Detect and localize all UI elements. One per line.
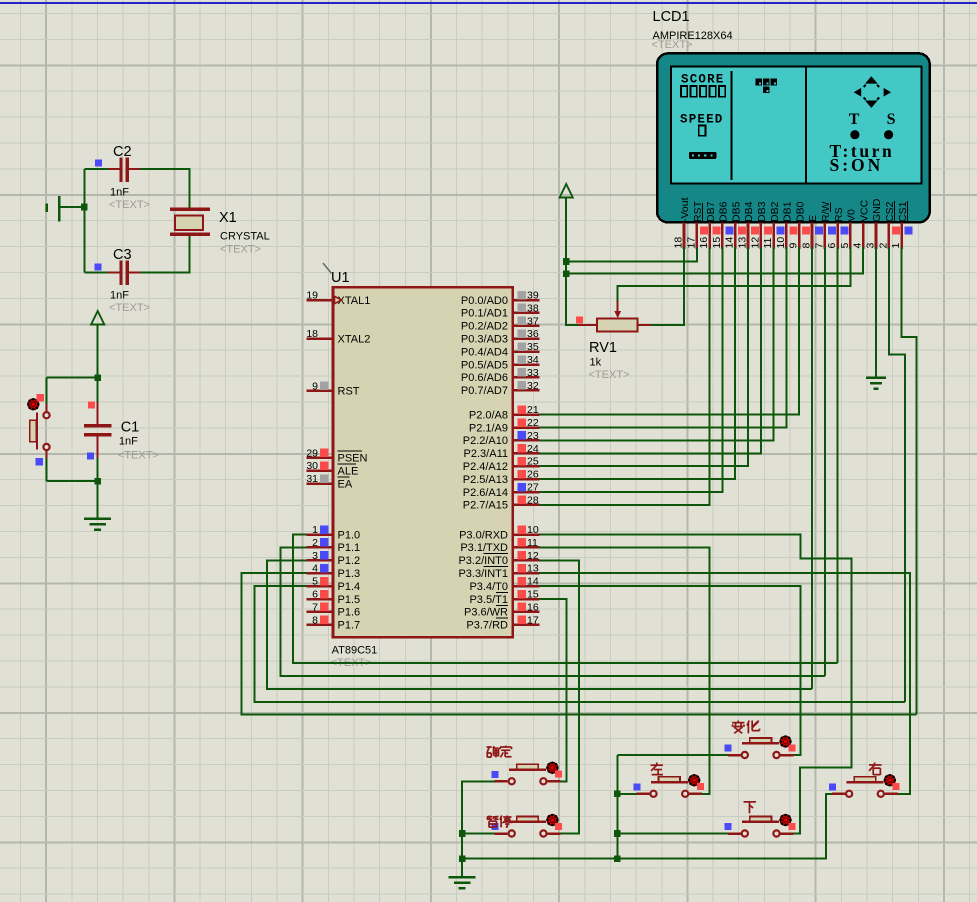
svg-text:EA: EA <box>338 478 353 490</box>
svg-text:P2.1/A9: P2.1/A9 <box>469 422 508 434</box>
svg-text:E: E <box>807 215 819 222</box>
svg-text:DB0: DB0 <box>794 201 806 222</box>
svg-text:29: 29 <box>306 447 318 459</box>
svg-text:15: 15 <box>527 589 539 601</box>
svg-text:P2.5/A13: P2.5/A13 <box>463 474 508 486</box>
svg-text:34: 34 <box>527 354 539 366</box>
svg-text:C3: C3 <box>113 247 132 263</box>
svg-text:P3.7/RD: P3.7/RD <box>466 620 508 632</box>
svg-text:P2.6/A14: P2.6/A14 <box>463 487 508 499</box>
svg-text:12: 12 <box>749 237 761 249</box>
svg-text:30: 30 <box>306 460 318 472</box>
svg-text:1nF: 1nF <box>119 436 138 448</box>
svg-text:1k: 1k <box>590 357 602 369</box>
svg-text:37: 37 <box>527 315 539 327</box>
svg-text:SPEED: SPEED <box>680 113 724 127</box>
svg-text:18: 18 <box>673 237 685 249</box>
svg-text:21: 21 <box>527 404 539 416</box>
svg-text:<TEXT>: <TEXT> <box>589 369 630 381</box>
svg-text:16: 16 <box>698 237 710 249</box>
svg-text:2: 2 <box>312 537 318 549</box>
svg-text:36: 36 <box>527 328 539 340</box>
svg-text:U1: U1 <box>331 270 350 286</box>
svg-text:1nF: 1nF <box>110 290 129 302</box>
svg-text:11: 11 <box>527 537 538 549</box>
svg-text:4: 4 <box>312 563 318 575</box>
svg-text:DB1: DB1 <box>782 201 794 222</box>
svg-text:P2.4/A12: P2.4/A12 <box>463 461 508 473</box>
svg-text:DB6: DB6 <box>718 201 730 222</box>
svg-text:8: 8 <box>312 614 318 626</box>
svg-text:SCORE: SCORE <box>681 73 725 87</box>
svg-text:<TEXT>: <TEXT> <box>109 199 150 211</box>
svg-text:PSEN: PSEN <box>338 453 368 465</box>
svg-text:14: 14 <box>527 576 539 588</box>
svg-text:LCD1: LCD1 <box>653 9 690 25</box>
svg-text:38: 38 <box>527 302 539 314</box>
svg-text:P1.7: P1.7 <box>338 620 361 632</box>
svg-text:-Vout: -Vout <box>679 197 691 222</box>
svg-text:17: 17 <box>685 237 697 249</box>
svg-text:P1.6: P1.6 <box>338 607 361 619</box>
svg-text:DB3: DB3 <box>756 201 768 222</box>
svg-text:VCC: VCC <box>858 199 870 222</box>
svg-text:15: 15 <box>711 237 723 249</box>
svg-text:<TEXT>: <TEXT> <box>220 244 261 256</box>
svg-text:ALE: ALE <box>338 466 359 478</box>
svg-text:P1.3: P1.3 <box>338 568 361 580</box>
svg-text:<TEXT>: <TEXT> <box>109 302 150 314</box>
svg-text:6: 6 <box>312 589 318 601</box>
svg-text:C2: C2 <box>113 144 132 160</box>
svg-text:S: S <box>887 111 896 128</box>
svg-text:V0: V0 <box>846 209 858 222</box>
svg-text:P0.4/AD4: P0.4/AD4 <box>461 346 508 358</box>
svg-text:1nF: 1nF <box>110 187 129 199</box>
svg-text:23: 23 <box>527 430 539 442</box>
svg-text:<TEXT>: <TEXT> <box>118 450 159 462</box>
svg-text:P3.4/T0: P3.4/T0 <box>469 581 508 593</box>
svg-text:35: 35 <box>527 341 539 353</box>
svg-text:P1.4: P1.4 <box>338 581 361 593</box>
svg-text:P0.2/AD2: P0.2/AD2 <box>461 321 508 333</box>
svg-text:P2.3/A11: P2.3/A11 <box>464 448 508 460</box>
svg-text:RS: RS <box>833 207 845 222</box>
svg-text:P0.1/AD1: P0.1/AD1 <box>461 308 508 320</box>
svg-text:RST: RST <box>338 386 360 398</box>
svg-text:T: T <box>849 111 860 128</box>
svg-text:5: 5 <box>312 576 318 588</box>
svg-text:7: 7 <box>813 243 825 249</box>
svg-text:3: 3 <box>312 550 318 562</box>
svg-text:39: 39 <box>527 290 539 302</box>
svg-text:P0.5/AD5: P0.5/AD5 <box>461 359 508 371</box>
svg-text:13: 13 <box>737 237 749 249</box>
svg-text:8: 8 <box>801 243 813 249</box>
svg-text:P3.0/RXD: P3.0/RXD <box>459 529 508 541</box>
svg-text:C1: C1 <box>121 420 140 436</box>
svg-text:P3.2/INT0: P3.2/INT0 <box>458 555 508 567</box>
svg-text:4: 4 <box>852 243 864 249</box>
svg-text:9: 9 <box>788 243 800 249</box>
svg-text:GND: GND <box>871 198 883 222</box>
svg-text:25: 25 <box>527 456 539 468</box>
svg-text:AT89C51: AT89C51 <box>332 645 378 657</box>
svg-text:P3.3/INT1: P3.3/INT1 <box>458 568 508 580</box>
svg-text:P1.5: P1.5 <box>338 594 361 606</box>
svg-text:XTAL1: XTAL1 <box>338 295 371 307</box>
svg-text:28: 28 <box>527 494 539 506</box>
svg-text:DB2: DB2 <box>769 201 781 222</box>
svg-text:XTAL2: XTAL2 <box>338 334 371 346</box>
svg-text:P2.2/A10: P2.2/A10 <box>463 435 508 447</box>
svg-text:22: 22 <box>527 417 539 429</box>
svg-text:12: 12 <box>527 550 539 562</box>
svg-text:P1.0: P1.0 <box>338 529 361 541</box>
svg-text:3: 3 <box>865 243 877 249</box>
svg-text:P0.3/AD3: P0.3/AD3 <box>461 334 508 346</box>
svg-text:P0.7/AD7: P0.7/AD7 <box>461 385 508 397</box>
svg-text:2: 2 <box>877 243 889 249</box>
svg-text:9: 9 <box>312 380 318 392</box>
svg-text:S:ON: S:ON <box>830 155 884 175</box>
svg-text:27: 27 <box>527 482 539 494</box>
svg-text:13: 13 <box>527 563 539 575</box>
svg-text:18: 18 <box>306 328 318 340</box>
svg-text:1: 1 <box>312 524 318 536</box>
svg-text:26: 26 <box>527 469 539 481</box>
svg-text:P0.0/AD0: P0.0/AD0 <box>461 295 508 307</box>
svg-text:10: 10 <box>775 237 787 249</box>
svg-text:RV1: RV1 <box>589 340 617 356</box>
svg-text:5: 5 <box>839 243 851 249</box>
svg-text:32: 32 <box>527 380 539 392</box>
svg-text:X1: X1 <box>219 210 237 226</box>
svg-text:P2.7/A15: P2.7/A15 <box>463 500 508 512</box>
svg-text:P3.6/WR: P3.6/WR <box>464 607 508 619</box>
svg-text:P1.1: P1.1 <box>338 542 361 554</box>
svg-text:17: 17 <box>527 614 539 626</box>
svg-text:P3.1/TXD: P3.1/TXD <box>460 542 508 554</box>
svg-text:CRYSTAL: CRYSTAL <box>220 231 270 243</box>
svg-text:P3.5/T1: P3.5/T1 <box>469 594 508 606</box>
svg-text:1: 1 <box>890 243 902 249</box>
svg-text:19: 19 <box>306 290 318 302</box>
svg-text:DB5: DB5 <box>730 201 742 222</box>
svg-text:<TEXT>: <TEXT> <box>652 39 693 51</box>
svg-text:24: 24 <box>527 443 539 455</box>
svg-text:DB4: DB4 <box>743 201 755 222</box>
svg-text:P1.2: P1.2 <box>338 555 361 567</box>
svg-text:14: 14 <box>724 237 736 249</box>
svg-text:33: 33 <box>527 367 539 379</box>
svg-text:7: 7 <box>312 601 318 613</box>
svg-text:6: 6 <box>826 243 838 249</box>
svg-text:P0.6/AD6: P0.6/AD6 <box>461 372 508 384</box>
svg-text:31: 31 <box>306 473 318 485</box>
svg-text:DB7: DB7 <box>705 201 717 222</box>
svg-text:11: 11 <box>762 237 774 248</box>
svg-text:P2.0/A8: P2.0/A8 <box>469 409 508 421</box>
svg-text:10: 10 <box>527 524 539 536</box>
svg-text:16: 16 <box>527 601 539 613</box>
